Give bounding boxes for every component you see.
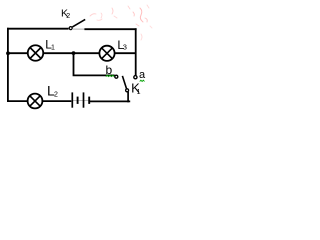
lamp L2	[28, 94, 43, 109]
wire bottom left segment	[7, 100, 71, 102]
lamp L3	[99, 46, 114, 61]
label L1	[45, 37, 55, 51]
svg-text:a: a	[139, 69, 146, 81]
junction dot middle	[72, 51, 76, 55]
lamp L1	[28, 45, 44, 61]
svg-text:2: 2	[54, 91, 58, 98]
faint pink artifacts	[90, 5, 152, 40]
label L3	[117, 38, 126, 52]
label K1	[131, 81, 141, 96]
node b	[115, 75, 118, 78]
label L2	[47, 82, 58, 98]
label K2	[61, 8, 70, 21]
wire top left segment	[7, 28, 69, 30]
background	[0, 0, 155, 122]
node a	[134, 76, 137, 79]
wire middle horizontal	[8, 52, 136, 54]
wire bottom right segment	[90, 100, 130, 102]
wire left vertical	[7, 28, 9, 102]
switch K1	[122, 76, 128, 92]
svg-text:b: b	[106, 63, 113, 77]
squiggle under b	[106, 75, 114, 77]
junction dot left	[6, 51, 10, 55]
wire top right segment	[84, 28, 136, 30]
wire branch to node b	[74, 53, 115, 75]
svg-text:2: 2	[66, 13, 70, 20]
wire riser to K1	[127, 92, 129, 103]
svg-text:1: 1	[137, 89, 141, 96]
wire right vertical	[135, 28, 137, 75]
squiggle under a	[140, 80, 145, 81]
switch K2	[69, 19, 85, 29]
battery	[71, 92, 90, 107]
svg-text:3: 3	[123, 42, 127, 51]
svg-text:1: 1	[51, 44, 55, 51]
